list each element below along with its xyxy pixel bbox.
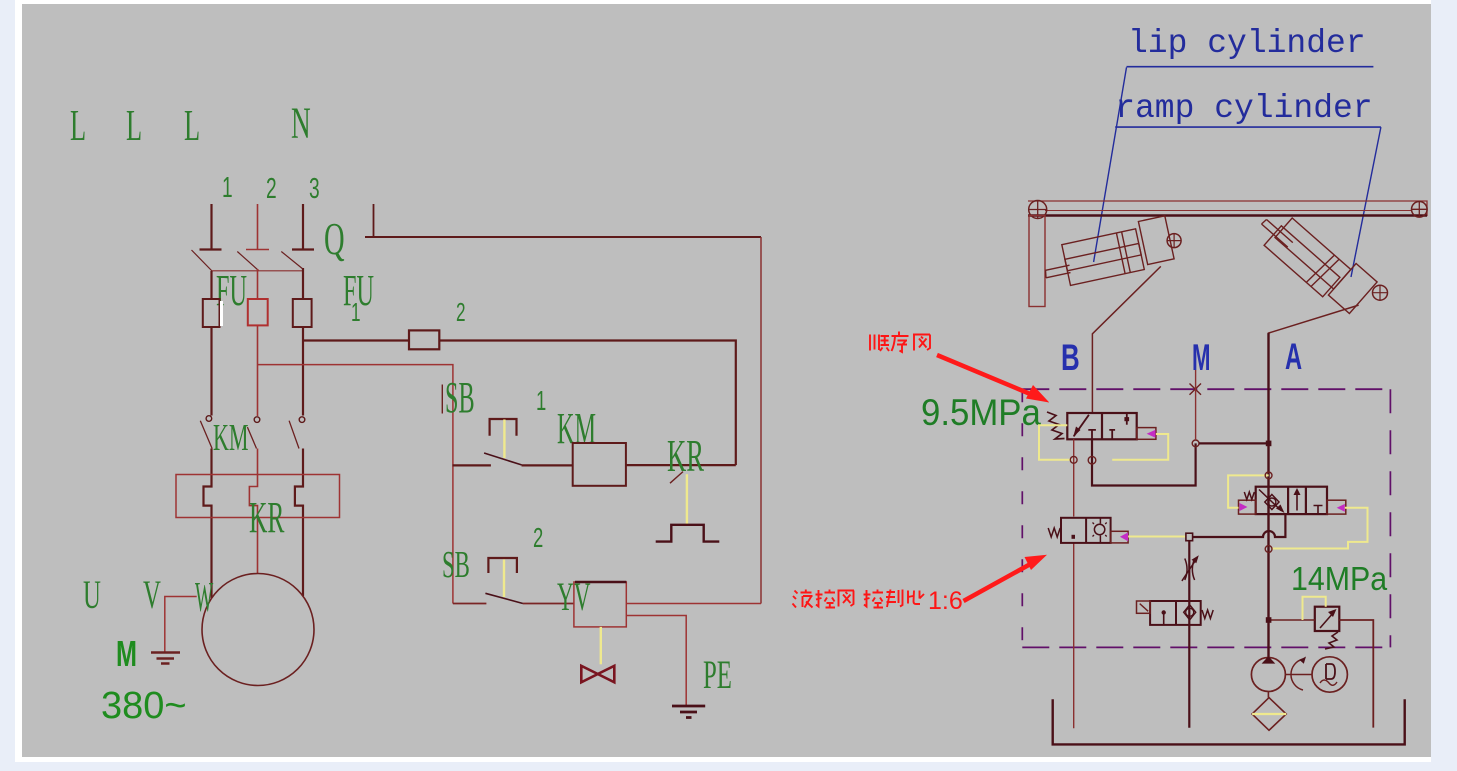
rung2 wire right — [626, 603, 761, 605]
yellow pilot A left — [1228, 475, 1269, 507]
pushbutton SB1 blade — [484, 453, 521, 465]
KR contact blade — [670, 472, 683, 484]
PE branch wire — [626, 616, 686, 706]
leader ramp — [1351, 127, 1381, 277]
relief valve body — [1315, 607, 1340, 631]
beam bottom edge — [1028, 214, 1427, 216]
svg-text:KM: KM — [213, 416, 248, 459]
dot at A relief — [1266, 617, 1272, 623]
dashed box left — [1021, 389, 1023, 647]
dashed box bottom — [1022, 646, 1390, 648]
svg-text:V: V — [143, 573, 161, 617]
A-row valve body — [1256, 487, 1327, 514]
spring W check — [1048, 528, 1060, 537]
port square on B — [1072, 535, 1076, 539]
svg-text:SB: SB — [445, 372, 475, 422]
relief wire left — [1269, 619, 1315, 621]
svg-text:U: U — [83, 573, 101, 617]
pump to filter — [1267, 692, 1269, 698]
A-valve T port — [1314, 506, 1323, 515]
svg-text:W: W — [195, 575, 213, 621]
sequence valve pilot box — [1137, 428, 1156, 440]
wire control tap L2 — [258, 365, 453, 604]
pivot left — [1029, 201, 1047, 219]
svg-text:SB: SB — [442, 543, 470, 585]
dot at A top — [1266, 441, 1272, 447]
A-valve right pilot box — [1327, 500, 1346, 514]
svg-text:L: L — [184, 101, 200, 150]
wire phase3 top — [292, 204, 314, 250]
relief valve arrow — [1320, 612, 1334, 628]
svg-text:M: M — [116, 634, 137, 675]
A-valve diamond check — [1265, 495, 1279, 510]
svg-text:2: 2 — [266, 173, 277, 205]
wire phase2 lower — [249, 449, 257, 574]
junction square M mid — [1186, 533, 1193, 541]
M line lower — [1188, 541, 1190, 728]
svg-text:A: A — [1285, 336, 1302, 378]
switch Q blade3 — [281, 252, 303, 270]
wire control tap L3 — [303, 339, 409, 341]
pivot right — [1412, 202, 1428, 218]
switch Q blade1 — [192, 250, 213, 272]
magenta arrow A-right — [1337, 504, 1345, 512]
svg-text:1: 1 — [222, 172, 233, 204]
sequence valve T ports — [1088, 430, 1115, 439]
magenta arrow A-left — [1240, 503, 1248, 511]
annotation yekongfa — [793, 590, 925, 608]
link M-A — [1199, 442, 1269, 444]
motor circle — [1312, 657, 1347, 692]
svg-text:L: L — [70, 101, 86, 150]
throttle arrow — [1182, 558, 1198, 581]
B upper line into valve — [1091, 413, 1093, 439]
motor D glyph — [1326, 664, 1335, 679]
white artifact line — [220, 301, 223, 326]
right rail — [760, 237, 762, 604]
wire control feed — [439, 341, 736, 466]
bottom M valve lever box — [1137, 601, 1151, 613]
wire phase2 mid — [257, 269, 259, 416]
cylinder lip (left) barrel — [1046, 216, 1175, 286]
switch Q linkage — [212, 270, 303, 272]
fuse FU1 — [203, 299, 220, 327]
ground (motor) — [151, 653, 180, 664]
switch Q blade2 — [237, 252, 258, 271]
A-valve mid arrow — [1296, 492, 1298, 511]
sequence valve arrow — [1074, 415, 1089, 437]
annotation arrow 2 — [964, 562, 1036, 602]
wire phase3 lower — [295, 449, 303, 597]
wire V-ground link — [165, 597, 197, 652]
coil YV — [574, 582, 626, 627]
svg-text:2: 2 — [533, 523, 543, 554]
overload relay KR box — [176, 475, 340, 518]
X mark on M — [1190, 384, 1202, 395]
spring W A-valve — [1244, 492, 1254, 500]
junction circle B2 — [1088, 456, 1096, 464]
svg-text:14MPa: 14MPa — [1291, 560, 1387, 597]
fuse FU2 — [248, 299, 268, 325]
svg-text:M: M — [1192, 337, 1210, 378]
svg-text:3: 3 — [309, 173, 320, 205]
tank — [1053, 699, 1405, 744]
pivot lip rod — [1167, 234, 1181, 248]
A line — [1267, 333, 1269, 657]
magenta arrow seq — [1147, 430, 1156, 438]
B thin output line — [1073, 439, 1075, 728]
relief wire right — [1339, 620, 1373, 728]
svg-text:ramp cylinder: ramp cylinder — [1115, 90, 1372, 127]
A-valve diagonal arrow — [1259, 490, 1281, 511]
wire phase3 mid — [302, 268, 304, 416]
svg-text:lip cylinder: lip cylinder — [1128, 25, 1366, 62]
yellow pilot seq right — [1112, 434, 1168, 460]
pushbutton SB2 plunger (yellow) — [503, 560, 505, 598]
M-A link lower with hop — [1193, 514, 1286, 537]
A-valve left pilot box — [1239, 500, 1256, 514]
pushbutton SB2 blade — [485, 593, 523, 603]
pushbutton SB1 bracket — [490, 419, 517, 436]
svg-text:9.5MPa: 9.5MPa — [921, 392, 1041, 433]
bottom M valve spring W — [1202, 610, 1213, 619]
wire lip to B — [1092, 266, 1160, 413]
annotation arrow 1 — [937, 355, 1035, 396]
rung1 wire right — [626, 464, 736, 466]
wire phase1 top — [200, 204, 222, 250]
cylinder ramp (right) barrel — [1262, 218, 1378, 314]
rung1 wire mid — [522, 464, 573, 466]
yellow pilot A right — [1272, 508, 1368, 549]
yellow pilot check — [1128, 536, 1186, 538]
rung1 wire left — [453, 464, 491, 466]
check ball circle — [1094, 524, 1104, 534]
M upper line — [1195, 370, 1197, 440]
pump triangle — [1262, 656, 1276, 663]
filter diamond — [1252, 698, 1286, 731]
svg-text:2: 2 — [456, 297, 466, 327]
underline ramp — [1115, 126, 1381, 128]
pushbutton SB2 bracket — [488, 558, 517, 573]
pump-motor link — [1285, 674, 1312, 676]
bottom M valve diamond — [1184, 605, 1196, 620]
svg-text:L: L — [126, 101, 142, 150]
B thick output line — [1092, 439, 1196, 485]
contactor KM blades — [200, 421, 299, 449]
motor wave — [1320, 680, 1337, 685]
top bus — [365, 236, 761, 238]
beam inner line — [1045, 210, 1411, 212]
junction circle A2 — [1265, 546, 1272, 553]
svg-text:380~: 380~ — [101, 685, 187, 727]
ground PE — [672, 706, 705, 718]
wire phase1 lower — [204, 449, 212, 599]
dashed box right — [1389, 389, 1391, 647]
coil KM — [573, 443, 626, 486]
pump circle — [1251, 658, 1285, 692]
wire phase1 mid — [210, 271, 212, 416]
svg-text:KM: KM — [557, 403, 596, 453]
YV solenoid stem (yellow) — [600, 627, 602, 664]
valve bowtie — [581, 666, 614, 683]
yellow pilot seq left — [1039, 425, 1072, 460]
wire phase2 top — [246, 204, 269, 250]
junction circle M top — [1192, 440, 1199, 447]
leader lip — [1094, 67, 1127, 262]
yellow pilot relief — [1303, 597, 1326, 620]
svg-text:1: 1 — [536, 386, 546, 417]
post — [1029, 216, 1045, 307]
dashed box top — [1022, 388, 1390, 390]
SB1 tick — [441, 385, 443, 414]
rung2 wire left — [453, 603, 487, 605]
N stub — [373, 204, 375, 237]
fuse FU3 — [293, 299, 312, 327]
sequence valve top port — [1126, 413, 1128, 425]
sequence valve body — [1067, 413, 1136, 439]
fuse FU control — [409, 330, 439, 349]
junction circle B1 — [1070, 456, 1077, 463]
svg-text:Q: Q — [324, 214, 345, 264]
contactor KM circles — [206, 416, 305, 423]
coil YV top edge — [575, 581, 626, 583]
wire ramp to A — [1268, 305, 1358, 389]
rung2 wire mid — [523, 603, 574, 605]
svg-text:KR: KR — [249, 493, 284, 542]
svg-text:B: B — [1061, 336, 1080, 378]
underline lip — [1127, 66, 1374, 68]
junction circle A1 — [1265, 472, 1272, 479]
KR trip symbol — [656, 525, 720, 542]
svg-text:1:6: 1:6 — [928, 587, 963, 615]
bottom M valve body — [1150, 601, 1201, 625]
KR plunger (yellow) — [686, 474, 688, 525]
filter yellow line — [1252, 713, 1286, 715]
annotation shunxufa — [870, 332, 930, 353]
pushbutton SB1 plunger (yellow) — [503, 420, 505, 459]
beam — [1028, 201, 1427, 216]
pilot check valve (B) body — [1061, 518, 1111, 543]
bottom M valve left port — [1163, 613, 1165, 625]
magenta arrow check — [1120, 532, 1128, 541]
pilot box right — [1111, 531, 1129, 543]
relief valve spring — [1325, 632, 1338, 649]
svg-text:N: N — [291, 98, 311, 147]
motor M circle — [202, 574, 314, 686]
sequence valve spring — [1047, 412, 1065, 439]
svg-text:1: 1 — [351, 297, 361, 327]
svg-text:PE: PE — [703, 653, 732, 697]
rotation arrow — [1291, 659, 1303, 690]
throttle arcs — [1185, 559, 1195, 581]
pivot ramp rod — [1373, 285, 1388, 300]
